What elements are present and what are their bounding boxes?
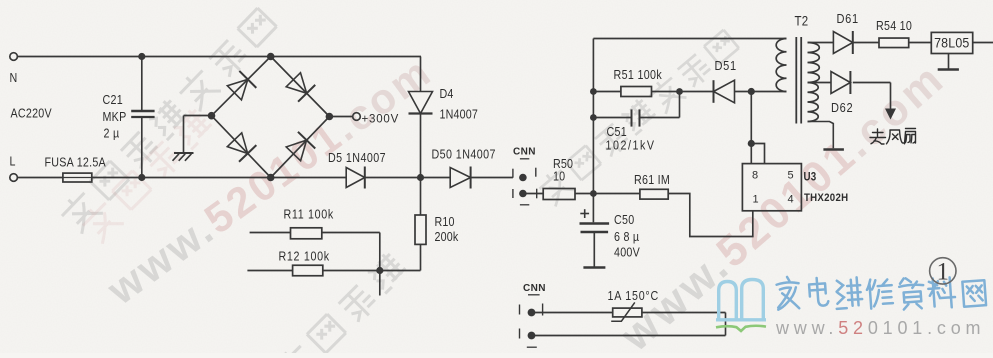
svg-text:1A 150°C: 1A 150°C (608, 289, 659, 303)
svg-text:1: 1 (937, 259, 950, 286)
svg-text:102/1kV: 102/1kV (606, 139, 656, 153)
svg-text:FUSA 12.5A: FUSA 12.5A (45, 156, 106, 170)
svg-text:L: L (10, 155, 16, 169)
svg-text:400V: 400V (614, 246, 640, 260)
svg-text:D51: D51 (715, 58, 737, 73)
svg-text:CNN: CNN (513, 147, 536, 158)
svg-text:C51: C51 (607, 125, 627, 139)
svg-text:8: 8 (752, 170, 758, 182)
svg-text:MKP: MKP (103, 110, 127, 124)
svg-text:D61: D61 (837, 11, 859, 26)
svg-text:T2: T2 (795, 14, 809, 29)
svg-text:D5 1N4007: D5 1N4007 (328, 151, 386, 165)
svg-text:6 8 µ: 6 8 µ (614, 230, 639, 244)
svg-text:www.520101.com: www.520101.com (775, 318, 985, 338)
svg-text:AC220V: AC220V (11, 107, 52, 121)
svg-text:4: 4 (788, 194, 794, 206)
svg-text:R11 100k: R11 100k (284, 208, 334, 222)
svg-text:5: 5 (788, 170, 794, 182)
svg-text:78L05: 78L05 (934, 35, 969, 51)
svg-text:10: 10 (553, 170, 566, 184)
svg-text:R51 100k: R51 100k (614, 68, 663, 82)
svg-text:D4: D4 (440, 87, 454, 101)
svg-text:N: N (10, 71, 18, 85)
svg-text:C50: C50 (614, 213, 635, 227)
svg-text:D62: D62 (831, 100, 853, 115)
svg-text:R61 IM: R61 IM (634, 173, 670, 187)
svg-text:1N4007: 1N4007 (440, 108, 479, 122)
svg-text:C21: C21 (103, 93, 123, 107)
svg-text:1: 1 (753, 194, 759, 206)
svg-text:200k: 200k (435, 230, 459, 244)
svg-text:R54 10: R54 10 (876, 19, 912, 33)
svg-text:+300V: +300V (362, 114, 400, 126)
svg-text:R10: R10 (435, 215, 455, 229)
svg-text:CNN: CNN (523, 283, 546, 294)
svg-text:U3: U3 (804, 171, 817, 184)
svg-text:R12 100k: R12 100k (279, 250, 330, 264)
svg-text:D50 1N4007: D50 1N4007 (432, 148, 496, 162)
svg-text:2 µ: 2 µ (104, 127, 120, 141)
svg-text:THX202H: THX202H (804, 193, 848, 205)
